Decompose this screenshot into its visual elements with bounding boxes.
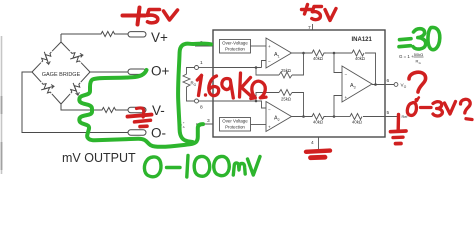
annotation question mark red: [409, 72, 426, 102]
svg-text:G: G: [419, 61, 421, 65]
annotation +5V red top-middle: [302, 5, 337, 21]
green wire pin 2 drop to bottom bus: [178, 43, 211, 142]
svg-text:Ref: Ref: [402, 115, 409, 119]
svg-text:40kΩ: 40kΩ: [313, 56, 323, 61]
ground red at V- lug: [128, 108, 152, 127]
strain gauge arm top-right: [61, 42, 70, 51]
svg-text:8: 8: [200, 105, 203, 111]
pin 1 wire: [213, 67, 262, 69]
wire: [118, 109, 128, 111]
svg-text:40kΩ: 40kΩ: [352, 120, 362, 125]
svg-text:Over-Voltage: Over-Voltage: [222, 41, 248, 46]
pin 6 terminal: [394, 83, 398, 87]
svg-text:40kΩ: 40kΩ: [313, 120, 323, 125]
wire O- from left vertex: [22, 72, 128, 133]
annotation 1.69kOhm red: [197, 73, 266, 99]
gage bridge B1: [32, 34, 90, 104]
svg-text:Over Voltage: Over Voltage: [222, 119, 248, 124]
svg-text:40kΩ: 40kΩ: [355, 56, 365, 61]
svg-text:Protection: Protection: [225, 125, 245, 130]
svg-text:O+: O+: [151, 64, 170, 79]
wire O+: [90, 71, 128, 73]
wire A1 inverting input to pin1 node: [262, 61, 267, 68]
svg-text:7: 7: [308, 25, 311, 31]
wire box2 to A2: [251, 124, 267, 126]
annotation 0-100mV green: [144, 156, 260, 178]
terminal lug O-: [128, 130, 146, 135]
pin 5 wire ref: [363, 116, 397, 118]
wire to RG: [187, 68, 195, 73]
strain gauge arm bottom-left: [32, 72, 41, 82]
ground red at pin 4: [306, 151, 330, 158]
resistor RG external: [183, 72, 190, 89]
junction: [255, 100, 258, 103]
junction A2 output: [302, 115, 305, 118]
wire bottom vertex down: [61, 104, 100, 110]
svg-text:2: 2: [278, 118, 280, 122]
over-voltage protection block 1: [220, 40, 251, 54]
svg-text:+: +: [345, 95, 348, 100]
wire to A3 non-inverting: [334, 96, 342, 117]
resistor 40k feedback A3: [334, 52, 352, 54]
wire V+ top: [61, 33, 99, 35]
IC U1 INA121 outline: [213, 30, 385, 137]
wire: [117, 33, 128, 35]
resistor bridge V+ lead: [99, 31, 117, 36]
wire box1 to A1: [251, 45, 267, 47]
op-amp A3: [342, 66, 372, 102]
svg-text:25kΩ: 25kΩ: [281, 68, 291, 73]
op-amp A2: [266, 102, 292, 132]
svg-text:3: 3: [207, 118, 210, 124]
junction A1 output: [302, 52, 305, 55]
svg-text:INA121: INA121: [352, 37, 373, 43]
resistor 40k series bottom: [310, 114, 326, 120]
pin 8 terminal: [195, 99, 199, 103]
A2 output rail: [292, 116, 311, 118]
green wire O+ to bottom bus to pin 3: [79, 70, 203, 147]
svg-text:25kΩ: 25kΩ: [281, 97, 291, 102]
junction A3 plus node: [333, 115, 336, 118]
resistor 25k upper feedback: [256, 68, 279, 76]
terminal lug V+: [128, 32, 146, 37]
wire to A3 inverting: [334, 53, 342, 73]
resistor 40k series top: [310, 50, 326, 56]
terminal lug O+: [128, 69, 146, 74]
annotation +5V red top-left: [123, 8, 178, 25]
svg-text:mV OUTPUT: mV OUTPUT: [62, 151, 136, 165]
svg-text:GAGE BRIDGE: GAGE BRIDGE: [42, 72, 81, 78]
pin 8 wire to A2 inverting: [213, 101, 266, 108]
svg-text:−: −: [268, 59, 271, 64]
annotation =30 green: [399, 27, 440, 49]
svg-text:Protection: Protection: [225, 47, 245, 52]
junction: [255, 66, 258, 69]
svg-text:3: 3: [354, 85, 356, 89]
ground red at pin 5: [391, 115, 407, 144]
resistor 25k lower feedback: [256, 93, 279, 102]
resistor bridge V- lead: [100, 107, 118, 112]
A1 output rail: [292, 52, 311, 54]
scan border artifact left edge: [1, 36, 3, 174]
svg-text:1: 1: [200, 60, 203, 66]
terminal lug V-: [128, 107, 146, 112]
wire top vertex up: [60, 34, 62, 42]
pin 2 stub: [195, 45, 213, 47]
wire RG to pin 8: [187, 89, 195, 101]
svg-text:4: 4: [311, 140, 314, 146]
strain gauge arm bottom-right: [81, 72, 90, 82]
junction A3 output: [374, 83, 377, 86]
svg-text:50kΩ: 50kΩ: [414, 52, 423, 57]
junction A3 minus node: [333, 52, 336, 55]
svg-text:A: A: [183, 125, 185, 129]
svg-text:−: −: [268, 108, 271, 113]
svg-text:6: 6: [387, 78, 390, 84]
svg-text:G = 1 +: G = 1 +: [399, 54, 414, 59]
pin 1 terminal: [195, 66, 199, 70]
annotation 0-3V? red: [407, 98, 472, 120]
pin 7 stub: [312, 24, 314, 30]
pin 4 stub: [318, 137, 320, 150]
A3 output wire: [372, 84, 394, 86]
pin 3 stub: [196, 123, 213, 125]
svg-text:−: −: [345, 72, 348, 77]
op-amp A1: [266, 38, 292, 68]
svg-text:V+: V+: [151, 30, 168, 45]
svg-text:+: +: [268, 44, 271, 49]
svg-text:+: +: [268, 125, 271, 130]
resistor 40k ref: [334, 116, 350, 118]
svg-text:1: 1: [278, 54, 280, 58]
svg-text:O-: O-: [151, 126, 166, 141]
svg-text:+: +: [183, 121, 185, 125]
over-voltage protection block 2: [220, 118, 251, 132]
strain gauge arm top-left: [52, 42, 61, 51]
svg-text:V-: V-: [152, 103, 165, 118]
svg-text:5: 5: [387, 110, 390, 116]
